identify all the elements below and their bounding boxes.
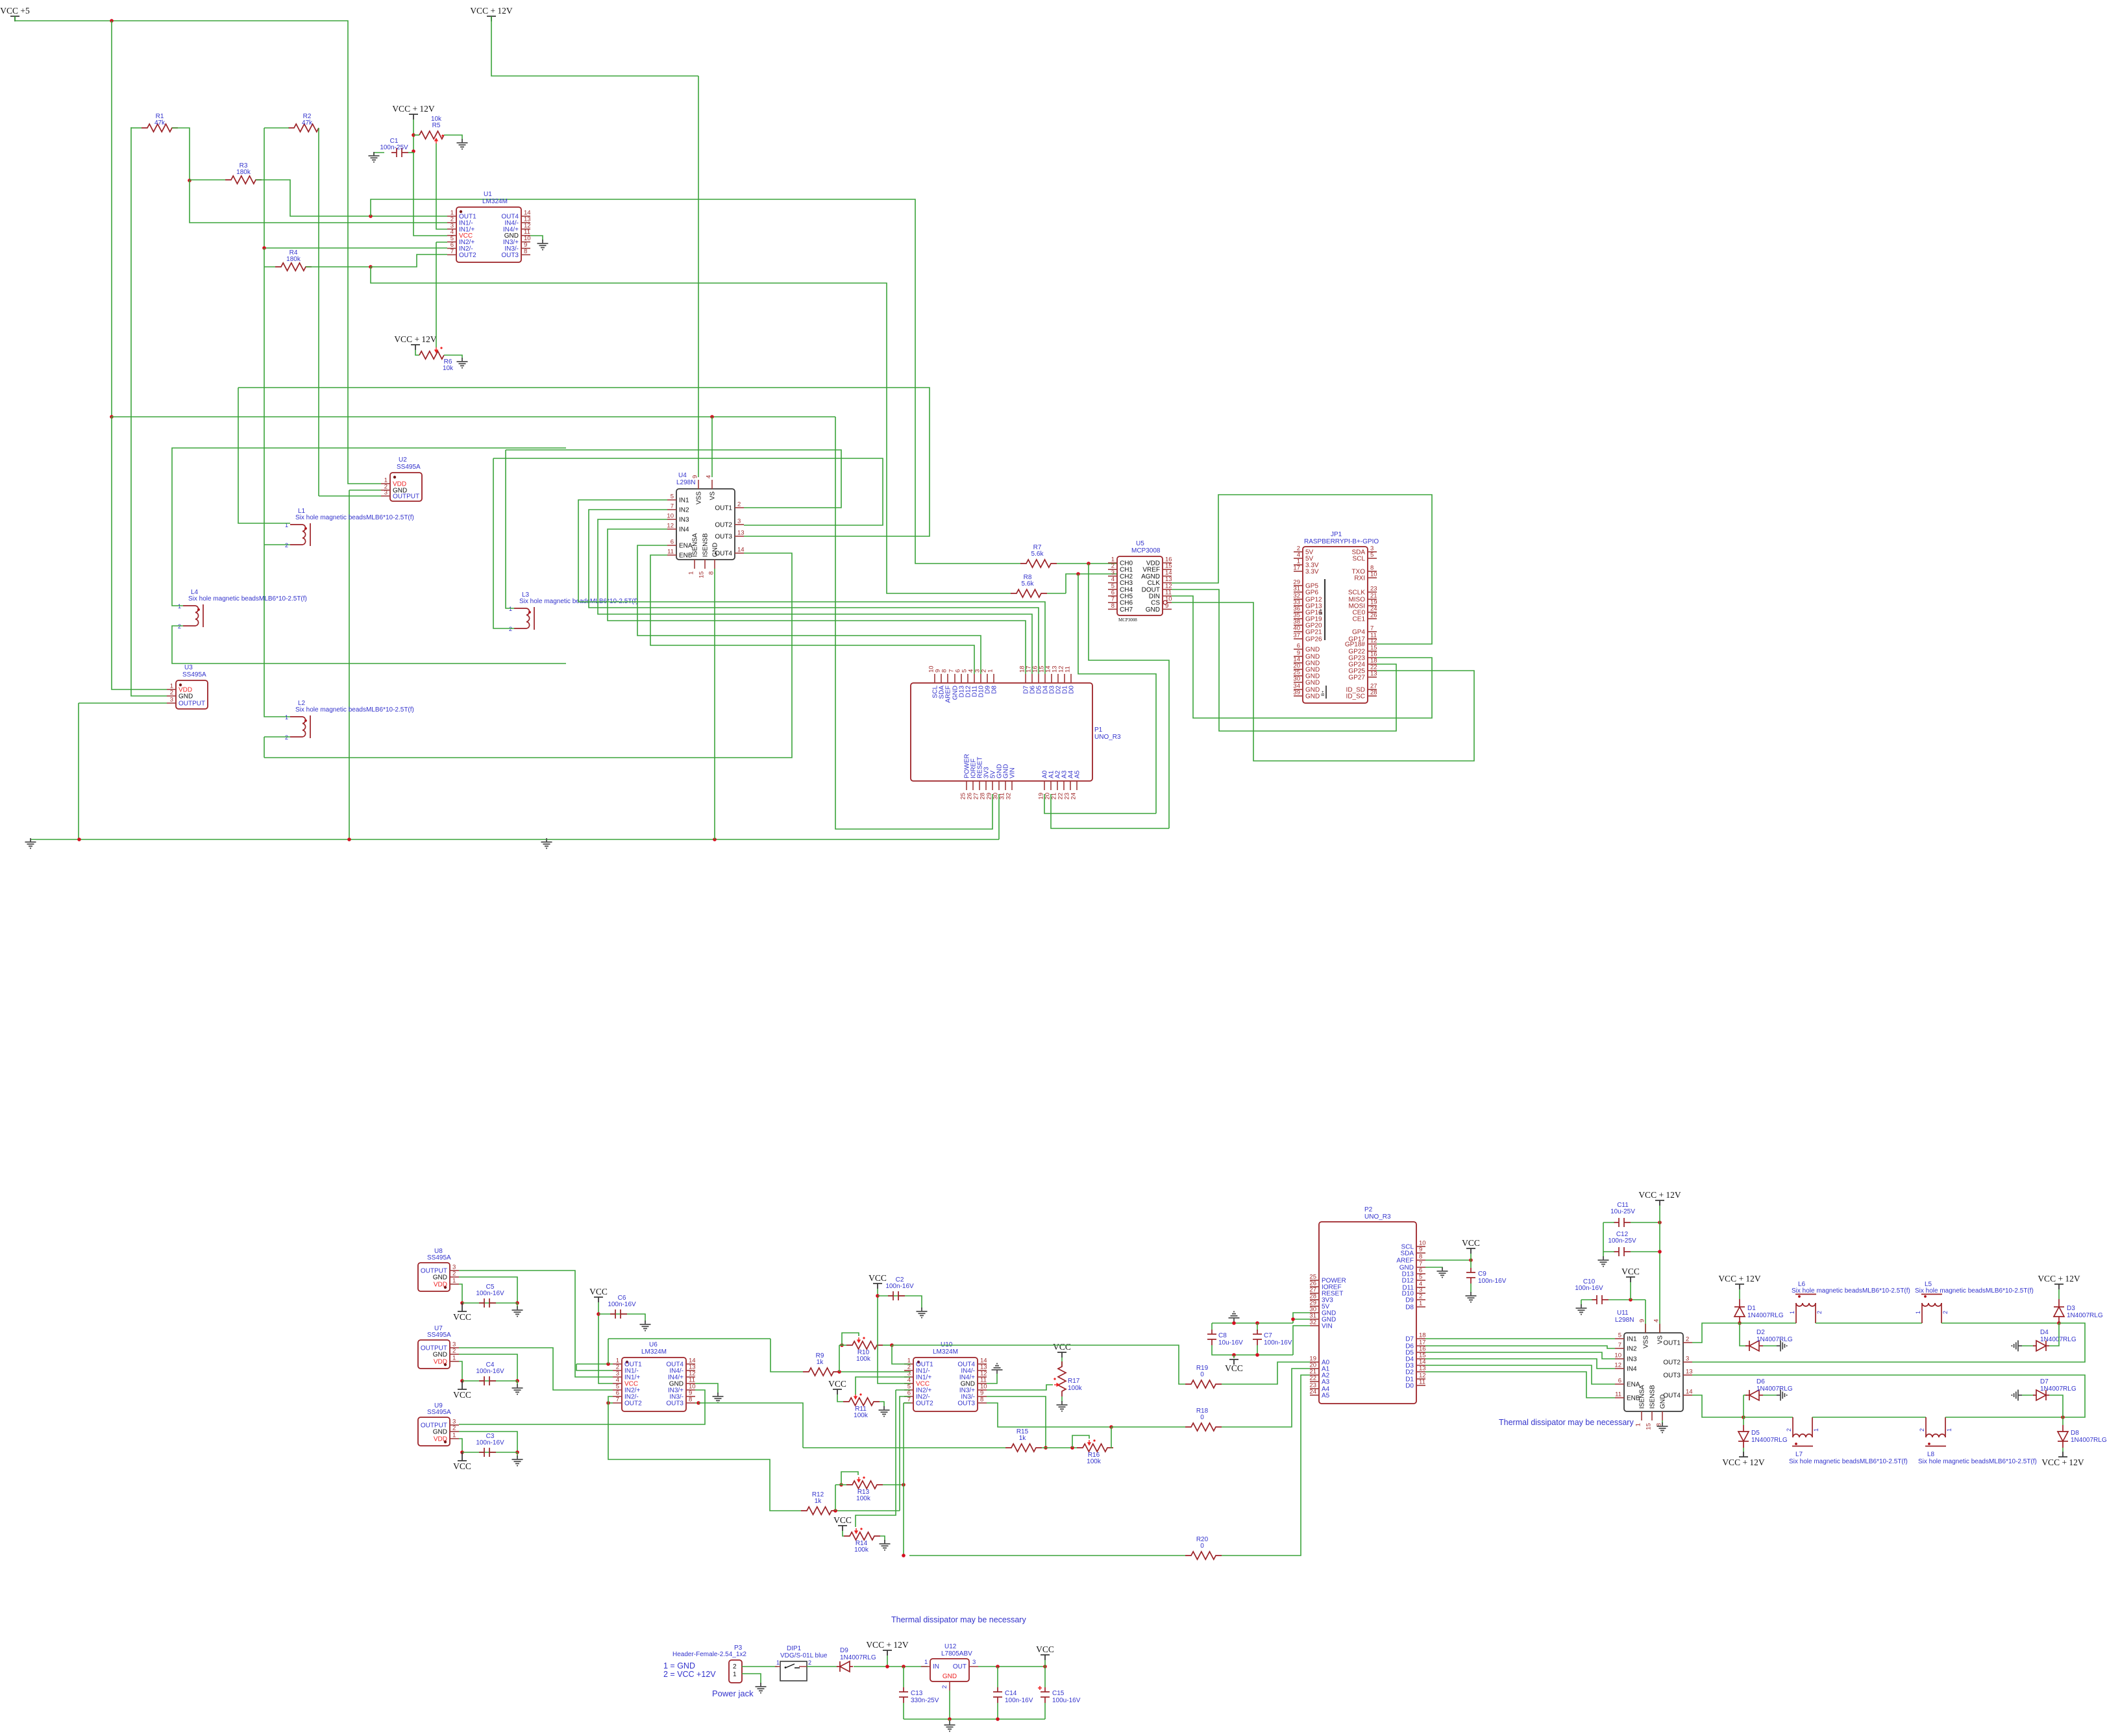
wire R1 left xyxy=(131,127,142,129)
wire DIP1 to D9 xyxy=(807,1666,837,1667)
junction xyxy=(460,1450,464,1454)
svg-text:D1: D1 xyxy=(1747,1305,1756,1312)
power flag VCC+12V at D1 xyxy=(1735,1284,1744,1289)
svg-text:CE1: CE1 xyxy=(1353,616,1366,623)
JP1 right pins xyxy=(1368,551,1377,552)
wire IN3/+ to R17 wiper xyxy=(987,1385,1053,1390)
svg-text:GND: GND xyxy=(712,543,719,557)
wire L4 pin1 xyxy=(172,448,566,606)
svg-text:1: 1 xyxy=(1813,1428,1819,1432)
svg-text:2: 2 xyxy=(285,734,288,741)
svg-text:18: 18 xyxy=(1419,1332,1426,1339)
svg-text:P2: P2 xyxy=(1364,1206,1373,1213)
wire to R18 xyxy=(1111,1426,1185,1428)
wire L3 pin1 drop xyxy=(506,450,514,608)
capacitor C14 xyxy=(993,1687,1002,1703)
svg-text:0: 0 xyxy=(1200,1414,1204,1421)
junction R20 in xyxy=(902,1554,906,1557)
svg-text:2: 2 xyxy=(733,1663,737,1670)
wire R4 left xyxy=(264,266,275,267)
svg-text:U6: U6 xyxy=(649,1341,658,1348)
svg-text:D8: D8 xyxy=(2071,1430,2079,1437)
junction IN2/- xyxy=(262,246,266,250)
svg-text:2: 2 xyxy=(1942,1311,1949,1314)
diode D8 (1N4007RLG) xyxy=(2058,1425,2068,1448)
wire to D8 xyxy=(2062,1417,2064,1425)
svg-text:U4: U4 xyxy=(678,472,687,479)
wire to CH1 xyxy=(1066,574,1117,593)
svg-text:Thermal dissipator may be nece: Thermal dissipator may be necessary xyxy=(1499,1418,1634,1427)
U11 right pins xyxy=(1683,1342,1692,1343)
wire C13 to rail xyxy=(903,1703,904,1719)
svg-text:1: 1 xyxy=(987,669,994,673)
wire to C13 xyxy=(903,1667,904,1687)
wire P3 to DIP1 xyxy=(742,1666,778,1667)
wire U6 OUT3 to R15 row xyxy=(698,1403,803,1448)
ground at R14 xyxy=(880,1540,891,1550)
svg-text:D9: D9 xyxy=(1405,1297,1414,1304)
svg-text:1N4007RLG: 1N4007RLG xyxy=(2071,1437,2107,1444)
ground at C5 xyxy=(512,1306,523,1317)
svg-text:D0: D0 xyxy=(1405,1383,1414,1390)
svg-text:OUT2: OUT2 xyxy=(1663,1359,1681,1367)
svg-text:1: 1 xyxy=(509,606,512,612)
svg-text:3.3V: 3.3V xyxy=(1305,569,1319,576)
wire P3 pin1 gnd xyxy=(742,1674,761,1684)
svg-text:GND: GND xyxy=(179,693,193,701)
junction xyxy=(876,1294,880,1298)
svg-text:Six hole magnetic beadsMLB6*10: Six hole magnetic beadsMLB6*10-2.5T(f) xyxy=(188,595,307,602)
wire D6 to gnd xyxy=(1763,1395,1777,1396)
svg-text:0: 0 xyxy=(1200,1371,1204,1378)
junction xyxy=(1255,1353,1259,1357)
junction xyxy=(110,19,114,23)
svg-text:D8: D8 xyxy=(991,686,998,694)
svg-text:2: 2 xyxy=(170,689,173,697)
capacitor C13 xyxy=(899,1687,908,1703)
U9 pins xyxy=(450,1424,459,1426)
svg-text:VCC + 12V: VCC + 12V xyxy=(1722,1457,1765,1467)
wire U1 GND xyxy=(530,236,543,241)
power flag VCC+12V at D3 xyxy=(2054,1284,2064,1289)
svg-text:8: 8 xyxy=(1419,1254,1422,1261)
svg-text:Thermal dissipator may be nece: Thermal dissipator may be necessary xyxy=(891,1615,1026,1624)
driver U4 (L298N) xyxy=(676,489,735,560)
wire D4-IN4 xyxy=(1425,1359,1615,1369)
capacitor C10 xyxy=(1592,1295,1608,1304)
svg-text:VS: VS xyxy=(709,491,717,501)
svg-text:VCC: VCC xyxy=(589,1287,608,1296)
svg-text:VCC +5: VCC +5 xyxy=(0,6,30,16)
JP1 B+ bar xyxy=(1324,579,1325,640)
wire R7 to CH0 xyxy=(1057,563,1117,564)
svg-text:VCC + 12V: VCC + 12V xyxy=(392,104,435,114)
wire IN2/+ to R14 wiper xyxy=(856,1390,896,1527)
svg-text:2: 2 xyxy=(737,501,741,508)
wire IN2-D5 xyxy=(589,510,1039,674)
junction xyxy=(515,1301,519,1305)
U10 right pins xyxy=(978,1363,987,1365)
U5 left pins xyxy=(1108,562,1117,564)
diode D5 (1N4007RLG) xyxy=(1738,1425,1749,1448)
svg-text:GND: GND xyxy=(1305,647,1320,654)
U3 pin1 mark xyxy=(179,684,182,686)
wire to P2 VIN xyxy=(1293,1326,1310,1355)
svg-text:IN: IN xyxy=(933,1663,939,1670)
wire C7 top lead xyxy=(1257,1323,1258,1331)
svg-text:5: 5 xyxy=(1419,1274,1422,1281)
wire VCC stem xyxy=(1233,1355,1235,1358)
ground at R5 xyxy=(457,139,468,149)
wire C3 gnd stem xyxy=(517,1452,518,1457)
svg-text:Power jack: Power jack xyxy=(712,1689,754,1698)
svg-text:D2: D2 xyxy=(1756,1329,1765,1336)
junction R12 out xyxy=(833,1509,837,1513)
wire U10 OUT2 lead xyxy=(904,1402,911,1404)
wire OUT1 up xyxy=(1692,1323,1740,1343)
svg-text:12: 12 xyxy=(667,523,674,530)
svg-text:OUT3: OUT3 xyxy=(1663,1372,1681,1380)
resistor R17 (trimmer) xyxy=(1058,1361,1066,1396)
wire VS drop cluster B xyxy=(1659,1206,1660,1333)
svg-text:JP1: JP1 xyxy=(1331,531,1342,538)
svg-text:OUT1: OUT1 xyxy=(1663,1340,1681,1347)
wire +5 to U2 VDD xyxy=(347,21,381,484)
svg-text:L7805ABV: L7805ABV xyxy=(941,1650,972,1657)
junction xyxy=(460,1301,464,1305)
svg-text:B+: B+ xyxy=(1318,608,1324,615)
power flag VCC under C5 xyxy=(458,1303,467,1311)
wire L4 pin2 xyxy=(172,626,566,663)
wire R5 wiper to IN1/+ xyxy=(436,143,447,229)
svg-text:R5: R5 xyxy=(432,122,441,129)
wire C15 to rail xyxy=(1044,1703,1046,1719)
svg-text:9: 9 xyxy=(692,475,699,478)
svg-text:P1: P1 xyxy=(1094,726,1103,734)
junction xyxy=(1087,562,1090,565)
wire L8 to D8 xyxy=(1945,1417,2063,1418)
svg-text:D4: D4 xyxy=(2040,1329,2049,1336)
wire U6 OUT2-IN2/- loop xyxy=(608,1396,613,1403)
wire flag to C1 xyxy=(413,119,414,153)
svg-text:2: 2 xyxy=(1419,1293,1422,1300)
capacitor C11 xyxy=(1614,1218,1631,1227)
svg-text:10: 10 xyxy=(1614,1352,1621,1359)
ground at C-rail xyxy=(944,1721,955,1731)
inductor L2 xyxy=(290,715,310,738)
svg-text:7: 7 xyxy=(1370,625,1374,632)
wire R4 right xyxy=(306,266,371,267)
wire C10 gnd stem xyxy=(1581,1300,1582,1306)
svg-text:U11: U11 xyxy=(1617,1309,1629,1317)
svg-text:1N4007RLG: 1N4007RLG xyxy=(2040,1385,2076,1393)
svg-text:180k: 180k xyxy=(286,256,301,263)
svg-text:AREF: AREF xyxy=(945,686,952,703)
wire GND to C4 xyxy=(459,1354,517,1381)
resistor R15 xyxy=(1005,1444,1042,1452)
wire GND to C3 xyxy=(459,1432,517,1452)
wire C12 left xyxy=(1603,1222,1614,1252)
svg-text:L8: L8 xyxy=(1927,1451,1935,1458)
wire flag to D1 xyxy=(1739,1289,1740,1299)
wire to D5 xyxy=(1743,1417,1744,1425)
wire wiper R6 vertical xyxy=(436,242,437,347)
wire U4 GND to rail xyxy=(714,569,715,839)
wire C1 node to VCC pin xyxy=(413,153,447,236)
wire C10 right xyxy=(1608,1299,1645,1300)
wire L6 to L5 xyxy=(1816,1322,1922,1324)
svg-text:47k: 47k xyxy=(154,119,166,127)
junction R13 left xyxy=(839,1483,843,1487)
wire flag stem xyxy=(887,1655,888,1667)
svg-text:11: 11 xyxy=(667,549,674,556)
junction U6 OUT2 xyxy=(606,1401,610,1405)
junction xyxy=(515,1379,519,1383)
wire C8C7 bottom rail xyxy=(1212,1345,1293,1355)
U1 pin1 mark xyxy=(460,210,462,213)
JP1 left pins xyxy=(1294,551,1303,552)
svg-text:6: 6 xyxy=(1618,1378,1621,1385)
svg-text:VCC + 12V: VCC + 12V xyxy=(2041,1457,2084,1467)
svg-text:2: 2 xyxy=(941,1685,948,1689)
wire to C15 xyxy=(1044,1667,1046,1687)
wire R13 to R20 xyxy=(903,1485,904,1556)
svg-text:D8: D8 xyxy=(1405,1304,1414,1311)
svg-text:1N4007RLG: 1N4007RLG xyxy=(1756,1336,1793,1343)
U1 pins xyxy=(447,216,456,217)
ground at C6 xyxy=(640,1321,651,1331)
svg-text:D9: D9 xyxy=(840,1647,848,1654)
svg-text:OUT3: OUT3 xyxy=(957,1400,975,1407)
svg-text:26: 26 xyxy=(1370,612,1377,619)
wire D3 to rail xyxy=(2058,1323,2060,1324)
op-amp U6 (LM324M) xyxy=(622,1358,686,1411)
svg-text:L298N: L298N xyxy=(676,479,695,486)
svg-text:4: 4 xyxy=(1653,1319,1660,1322)
wire ENA-D10 xyxy=(637,545,981,674)
ground at C2 xyxy=(917,1308,928,1318)
power flag VCC at C6 xyxy=(594,1297,603,1302)
op-amp U1 (LM324M) xyxy=(456,207,521,262)
svg-text:VCC: VCC xyxy=(869,1273,887,1283)
wire U6 OUT1 lead xyxy=(576,1363,613,1365)
inductor L5 xyxy=(1921,1295,1942,1324)
wire IN4-D7 xyxy=(608,529,1026,674)
wire R11 wiper to IN1/+ xyxy=(856,1377,911,1395)
U5 right pins xyxy=(1163,562,1172,564)
resistor R19 xyxy=(1185,1380,1222,1388)
U8 pin1 mark xyxy=(444,1286,447,1289)
svg-text:A5: A5 xyxy=(1322,1393,1330,1400)
board P1 (UNO_R3) xyxy=(911,683,1092,781)
svg-text:Six hole magnetic beadsMLB6*10: Six hole magnetic beadsMLB6*10-2.5T(f) xyxy=(1918,1458,2037,1465)
wire ENB-D11 xyxy=(650,555,974,674)
wire IN3-D6 xyxy=(598,519,1032,674)
wire U6 GND xyxy=(695,1383,718,1394)
svg-text:IN2: IN2 xyxy=(1627,1346,1637,1353)
wire to R19 xyxy=(892,1345,1185,1384)
wire C5 gnd stem xyxy=(517,1303,518,1308)
wire to C14 xyxy=(997,1667,998,1687)
power flag VCC at R11 xyxy=(833,1389,842,1395)
svg-text:5: 5 xyxy=(1370,552,1374,559)
svg-text:1 = GND: 1 = GND xyxy=(663,1661,695,1670)
power flag VCC at C10 xyxy=(1626,1277,1635,1282)
svg-text:U1: U1 xyxy=(484,191,492,198)
junction xyxy=(1291,1317,1295,1321)
wire U4 OUT2 to L3.2 xyxy=(493,458,883,525)
svg-text:8: 8 xyxy=(1111,602,1115,610)
svg-text:22: 22 xyxy=(1309,1375,1316,1382)
svg-text:39: 39 xyxy=(1293,689,1300,697)
svg-text:SCLK: SCLK xyxy=(1348,589,1365,597)
svg-text:0: 0 xyxy=(1200,1543,1204,1550)
svg-text:IN3: IN3 xyxy=(1627,1356,1637,1363)
capacitor C3 xyxy=(479,1448,496,1457)
wire R13 right xyxy=(883,1484,904,1485)
svg-text:VCC: VCC xyxy=(453,1461,471,1471)
svg-text:VCC: VCC xyxy=(833,1515,852,1525)
svg-text:180k: 180k xyxy=(236,169,251,176)
resistor R12 xyxy=(801,1507,837,1515)
svg-text:C13: C13 xyxy=(911,1690,923,1697)
wire R10 right xyxy=(883,1345,892,1346)
resistor R13 (trimmer) xyxy=(846,1481,883,1489)
wire D4 up xyxy=(2049,1323,2059,1346)
wire CS to GP25 xyxy=(1172,602,1474,761)
junction xyxy=(996,1665,1000,1668)
junction xyxy=(412,149,415,153)
junction xyxy=(1232,1353,1236,1357)
wire CLK to GP18 xyxy=(1172,495,1432,644)
svg-text:LM324M: LM324M xyxy=(933,1348,958,1356)
svg-text:14: 14 xyxy=(737,547,745,554)
capacitor C7 xyxy=(1253,1330,1262,1345)
svg-text:GND: GND xyxy=(1146,606,1160,614)
wire to U3 VDD xyxy=(112,417,167,689)
svg-text:OUTPUT: OUTPUT xyxy=(393,493,419,501)
wire C6 row xyxy=(598,1314,645,1322)
svg-text:UNO_R3: UNO_R3 xyxy=(1364,1213,1391,1221)
junction xyxy=(2057,1321,2061,1325)
svg-text:100n-16V: 100n-16V xyxy=(885,1283,914,1290)
power flag VCC+12V at D5 xyxy=(1739,1452,1748,1457)
wire rail gnd stem xyxy=(949,1719,950,1722)
svg-text:B+: B+ xyxy=(1321,691,1325,696)
wire IN2/- row xyxy=(264,247,447,249)
svg-text:3: 3 xyxy=(170,697,173,704)
svg-text:VCC + 12V: VCC + 12V xyxy=(866,1640,909,1650)
wire R9 feed drop xyxy=(770,1339,803,1372)
svg-text:U3: U3 xyxy=(184,664,193,671)
svg-text:VDG/S-01L blue: VDG/S-01L blue xyxy=(780,1652,828,1659)
wire D8 to flag xyxy=(2062,1448,2064,1452)
wire U6 OUT2 lead xyxy=(608,1402,613,1404)
svg-text:IN1: IN1 xyxy=(1627,1336,1637,1343)
svg-text:SS495A: SS495A xyxy=(427,1332,451,1339)
svg-text:OUT: OUT xyxy=(953,1663,967,1670)
svg-text:1: 1 xyxy=(1635,1423,1642,1426)
svg-text:RASPBERRYPI-B+-GPIO: RASPBERRYPI-B+-GPIO xyxy=(1304,538,1379,545)
svg-text:24: 24 xyxy=(1070,793,1078,800)
svg-text:13: 13 xyxy=(737,530,745,537)
svg-text:100n-16V: 100n-16V xyxy=(1264,1339,1292,1346)
resistor R14 (trimmer) xyxy=(844,1532,880,1540)
ground at C10 xyxy=(1576,1304,1587,1315)
svg-text:VCC: VCC xyxy=(1036,1644,1054,1654)
svg-text:8: 8 xyxy=(941,669,948,673)
svg-text:330n-25V: 330n-25V xyxy=(911,1697,939,1704)
svg-text:GND: GND xyxy=(433,1274,447,1282)
svg-text:LM324M: LM324M xyxy=(641,1348,667,1356)
wire R3 right to OUT1 xyxy=(256,180,447,216)
resistor R9 xyxy=(803,1368,839,1376)
wire R13 left lead xyxy=(835,1484,846,1485)
wire C10 left xyxy=(1581,1299,1592,1300)
svg-text:100k: 100k xyxy=(856,1495,871,1502)
resistor R6 (trimmer) xyxy=(419,351,444,359)
svg-text:100k: 100k xyxy=(854,1546,869,1554)
U4 left pins xyxy=(667,499,676,501)
wire gnd to D4 xyxy=(2022,1345,2034,1346)
svg-text:2: 2 xyxy=(285,542,288,549)
wire long to R15 xyxy=(803,1447,1005,1448)
wire U2 OUTPUT up xyxy=(318,226,319,496)
wire R10 loop xyxy=(842,1333,859,1345)
svg-text:7: 7 xyxy=(450,248,454,255)
junction xyxy=(948,1717,952,1721)
wire rail to L7 xyxy=(1744,1417,1793,1418)
svg-text:1: 1 xyxy=(1915,1311,1921,1314)
diode D7 (1N4007RLG) xyxy=(2033,1390,2049,1400)
capacitor C8 xyxy=(1207,1330,1216,1345)
wire to VSS U11 xyxy=(1645,1300,1646,1333)
svg-text:100n-16V: 100n-16V xyxy=(1478,1278,1507,1285)
diode D4 (1N4007RLG) xyxy=(2033,1341,2049,1351)
wire to R5 xyxy=(413,134,419,136)
svg-text:SS495A: SS495A xyxy=(397,464,421,471)
junction xyxy=(77,837,81,841)
junction xyxy=(347,837,351,841)
U7 pins xyxy=(450,1347,459,1348)
wire to OUT2 xyxy=(371,254,447,267)
svg-text:VCC: VCC xyxy=(1053,1342,1071,1352)
svg-text:9: 9 xyxy=(1419,1246,1422,1254)
sensor U9 (SS495A) xyxy=(418,1417,450,1446)
wire ground rail xyxy=(31,839,999,840)
U11 left pins xyxy=(1615,1338,1624,1339)
wire R1 right to R3 xyxy=(172,128,190,180)
U4 right pins xyxy=(735,507,744,508)
svg-text:1k: 1k xyxy=(1019,1435,1027,1442)
wire A1 xyxy=(1051,794,1169,828)
wire VCC+5 drop xyxy=(111,21,112,417)
junction U6 OUT3 xyxy=(696,1401,700,1405)
power flag VCC under C8 xyxy=(1229,1359,1238,1365)
ground at D6 xyxy=(1777,1390,1787,1401)
wire C4 gnd stem xyxy=(517,1381,518,1385)
ground at R11 xyxy=(879,1406,890,1417)
svg-text:100k: 100k xyxy=(1068,1385,1083,1392)
junction xyxy=(1738,1321,1742,1325)
wire R8 right xyxy=(1047,593,1066,594)
wire wiper R6 to IN2/+ xyxy=(436,242,447,243)
svg-text:100n-25V: 100n-25V xyxy=(380,144,408,151)
svg-text:10u-25V: 10u-25V xyxy=(1610,1208,1635,1215)
wire C12 right xyxy=(1631,1251,1660,1252)
junction R10 out xyxy=(890,1343,894,1347)
svg-text:D6: D6 xyxy=(1756,1378,1765,1385)
